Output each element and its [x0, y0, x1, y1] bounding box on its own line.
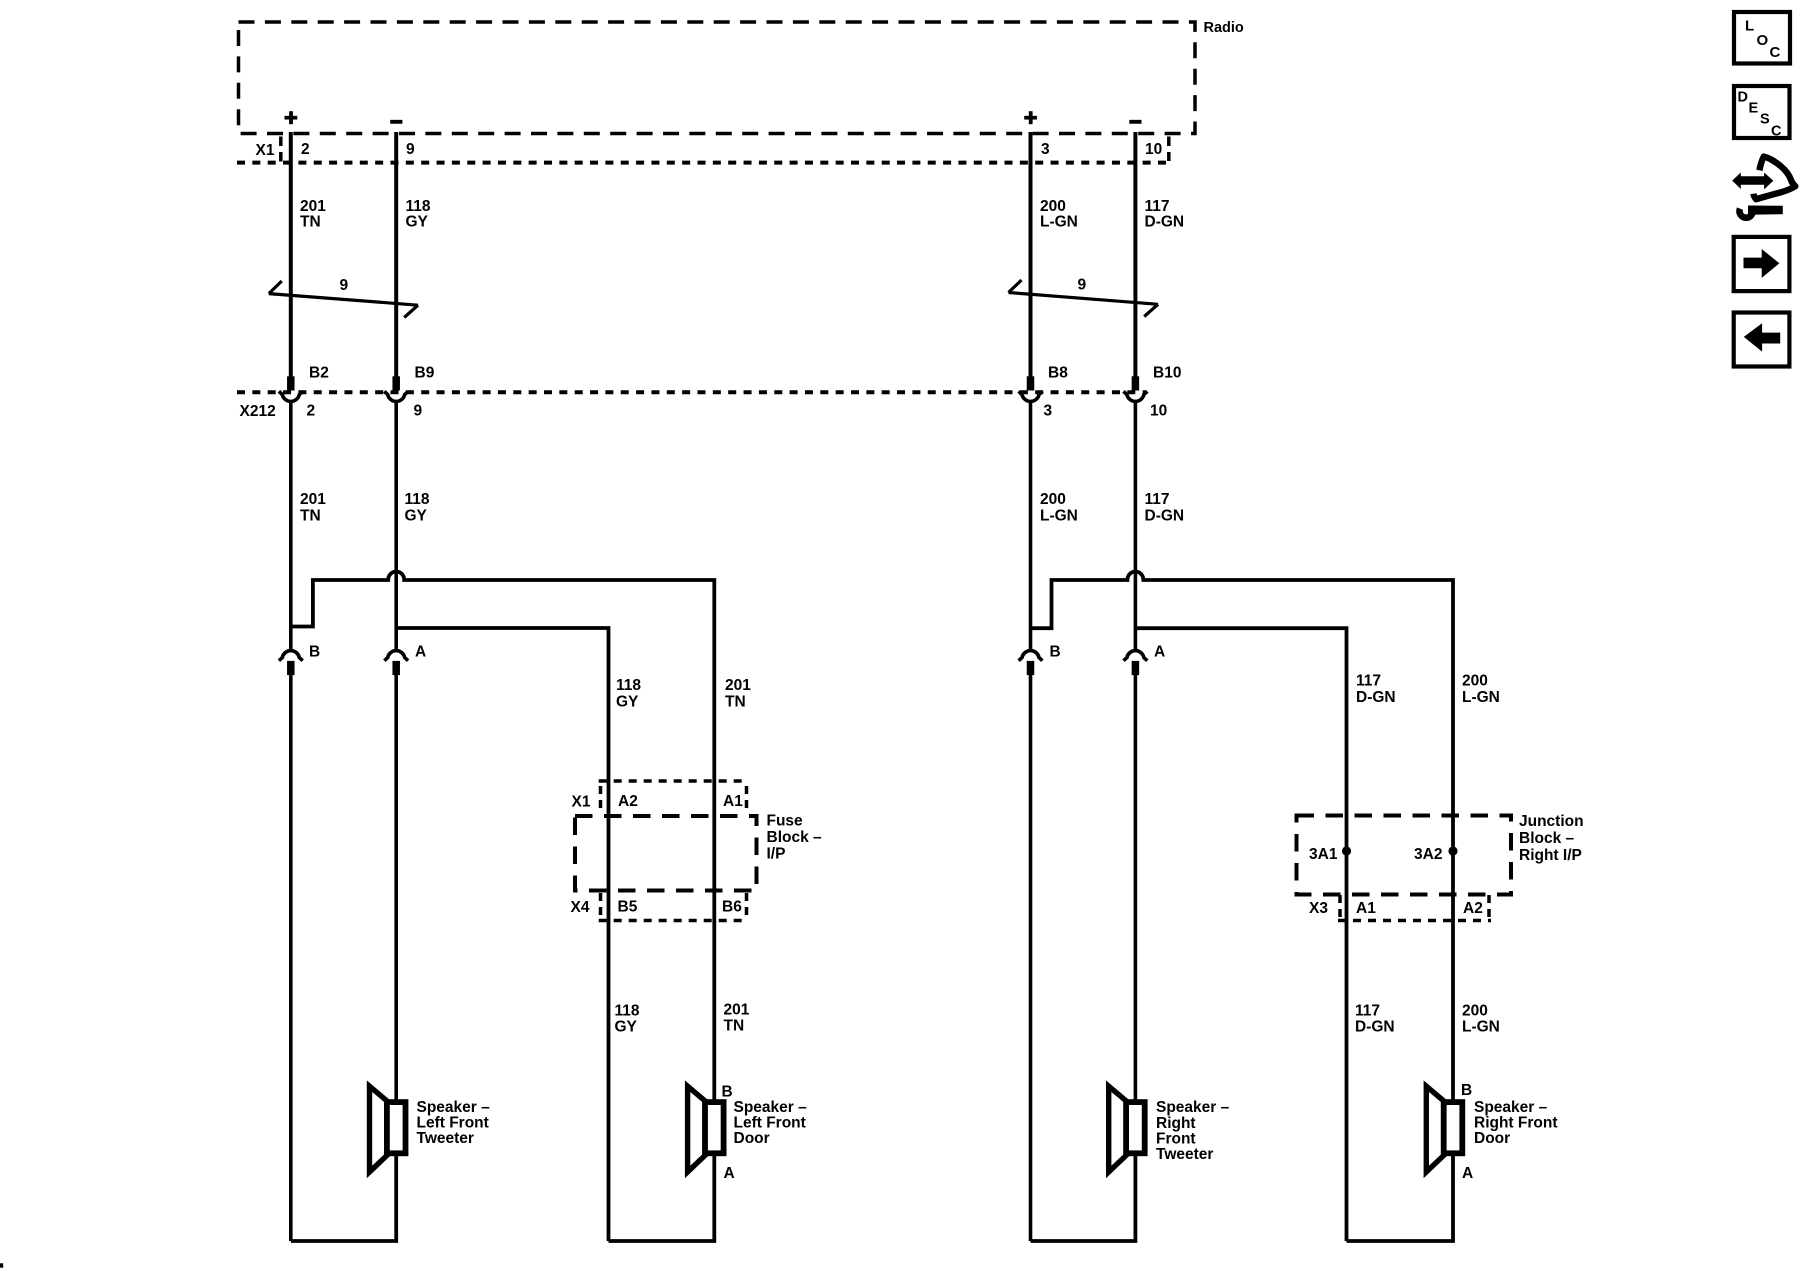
label Fuse Block - I/P — [767, 813, 823, 863]
pin A1 label (fuse block) — [723, 793, 743, 810]
scan speck bottom-left — [0, 1263, 3, 1267]
speaker - left front door — [688, 1086, 724, 1172]
svg-text:Door: Door — [1474, 1130, 1510, 1147]
sidebar tool icon wrench — [1739, 206, 1782, 218]
pin 3 label (X1) — [1041, 141, 1050, 158]
label 9 (right harness) — [1078, 277, 1087, 294]
label X1 — [256, 142, 275, 159]
svg-text:117: 117 — [1355, 1003, 1380, 1020]
pin B label (RF door speaker) — [1461, 1082, 1472, 1099]
label Speaker - Left Front Door — [734, 1099, 808, 1147]
svg-text:118: 118 — [406, 198, 431, 215]
svg-text:Left Front: Left Front — [734, 1115, 806, 1132]
svg-text:B8: B8 — [1048, 365, 1068, 382]
svg-text:10: 10 — [1145, 141, 1162, 158]
label B (left inline connector) — [309, 644, 320, 661]
pin - (radio right-front -, pin 10) — [1129, 120, 1141, 124]
radio (dashed component box) — [239, 22, 1196, 134]
inline connector B male (right) — [1027, 661, 1035, 675]
svg-text:Speaker –: Speaker – — [734, 1099, 808, 1116]
junction node 3A1 — [1342, 846, 1351, 855]
pin A2 label (fuse block) — [618, 793, 638, 810]
pin A2 label (X3) — [1463, 900, 1483, 917]
pin 2 label (X212) — [307, 403, 316, 420]
svg-text:L-GN: L-GN — [1462, 1019, 1500, 1036]
inline connector A female (left) — [384, 651, 408, 661]
svg-text:118: 118 — [616, 677, 641, 694]
svg-text:Speaker –: Speaker – — [417, 1099, 491, 1116]
wire 200 L-GN (X212 to connector B) — [1029, 403, 1033, 650]
svg-text:3A1: 3A1 — [1309, 846, 1338, 863]
sidebar tool icon curved arrow — [1753, 157, 1795, 200]
svg-text:201: 201 — [724, 1002, 750, 1019]
pin label B2 (X212) — [309, 365, 329, 382]
svg-text:B2: B2 — [309, 365, 329, 382]
svg-text:9: 9 — [1078, 277, 1087, 294]
label Junction Block - Right I/P — [1519, 813, 1584, 864]
label 200 L-GN (upper) — [1040, 198, 1078, 231]
pin 9 label (X1) — [406, 141, 415, 158]
svg-text:GY: GY — [405, 508, 428, 525]
label A (right inline connector) — [1154, 644, 1165, 661]
svg-text:Junction: Junction — [1519, 813, 1584, 830]
pin B label (LF door speaker) — [722, 1084, 733, 1101]
speaker - left front tweeter — [370, 1086, 406, 1172]
wire branch 200 L-GN to junction block (hops over 117 D-GN) — [1031, 572, 1454, 1100]
svg-text:118: 118 — [615, 1003, 640, 1020]
svg-text:9: 9 — [414, 403, 423, 420]
svg-text:A: A — [415, 644, 426, 661]
sidebar LOC letters — [1745, 18, 1781, 62]
fuse block - I/P (dashed box) — [575, 816, 757, 891]
pin 3 label (X212) — [1044, 403, 1053, 420]
svg-text:Left Front: Left Front — [417, 1115, 489, 1132]
inline connector A male (right) — [1132, 661, 1140, 675]
wire door return loop right (117 D-GN) — [1347, 1155, 1454, 1241]
svg-text:A1: A1 — [1356, 900, 1376, 917]
female terminal X212 pin2 — [279, 391, 303, 401]
svg-text:B9: B9 — [415, 365, 435, 382]
inline connector A female (right) — [1124, 651, 1148, 661]
svg-text:A: A — [1154, 644, 1165, 661]
wire 200 L-GN (connector B to tweeter loop) — [1029, 675, 1033, 1242]
svg-text:X3: X3 — [1309, 900, 1328, 917]
speaker - right front door — [1426, 1086, 1462, 1172]
label 200 L-GN (second) — [1040, 491, 1078, 525]
svg-text:A: A — [724, 1165, 735, 1182]
svg-text:Block –: Block – — [1519, 830, 1575, 847]
svg-text:TN: TN — [300, 214, 321, 231]
junction node 3A2 — [1448, 846, 1457, 855]
svg-text:10: 10 — [1150, 403, 1167, 420]
svg-text:200: 200 — [1040, 198, 1066, 215]
pin B5 label (fuse block) — [618, 899, 638, 916]
pin label B10 (X212) — [1153, 365, 1181, 382]
label Speaker - Left Front Tweeter — [417, 1099, 491, 1147]
label 118 GY (lower) — [615, 1003, 640, 1036]
svg-text:D-GN: D-GN — [1355, 1019, 1395, 1036]
svg-text:117: 117 — [1356, 673, 1381, 690]
label 3A1 — [1309, 846, 1338, 863]
svg-text:C: C — [1770, 44, 1781, 61]
wire 118 GY (connector A to LF tweeter) — [394, 675, 398, 1100]
label 118 GY (mid) — [616, 677, 641, 711]
pin 10 label (X212) — [1150, 403, 1167, 420]
svg-text:201: 201 — [300, 491, 326, 508]
label Speaker - Right Front Door — [1474, 1099, 1558, 1147]
pin A label (RF door speaker) — [1462, 1165, 1473, 1182]
svg-text:B10: B10 — [1153, 365, 1181, 382]
svg-text:L-GN: L-GN — [1462, 689, 1500, 706]
inline connector B female (right) — [1019, 651, 1043, 661]
svg-text:L-GN: L-GN — [1040, 508, 1078, 525]
label A (left inline connector) — [415, 644, 426, 661]
wire 201 TN (radio pin2 to X212) — [289, 132, 293, 377]
svg-text:117: 117 — [1145, 491, 1170, 508]
pin B6 label (fuse block) — [722, 899, 742, 916]
wire branch 118 GY to fuse block — [396, 628, 608, 1241]
svg-text:3: 3 — [1041, 141, 1050, 158]
svg-text:B: B — [309, 644, 320, 661]
pin A label (LF door speaker) — [724, 1165, 735, 1182]
label 9 (left harness) — [340, 277, 349, 294]
svg-text:Right I/P: Right I/P — [1519, 847, 1582, 864]
svg-text:TN: TN — [725, 694, 746, 711]
svg-text:D-GN: D-GN — [1356, 689, 1396, 706]
svg-text:Tweeter: Tweeter — [417, 1130, 474, 1147]
svg-text:2: 2 — [301, 141, 310, 158]
svg-text:Fuse: Fuse — [767, 813, 804, 830]
sidebar tool icon double arrow — [1733, 174, 1773, 189]
pin label B8 (X212) — [1048, 365, 1068, 382]
label 118 GY (upper) — [406, 198, 431, 231]
label 200 L-GN (lower) — [1462, 1003, 1500, 1036]
pin - (radio left-front -, pin 9) — [390, 120, 402, 124]
label Speaker - Right Front Tweeter — [1156, 1099, 1230, 1163]
label 117 D-GN (upper) — [1145, 198, 1185, 231]
svg-text:GY: GY — [616, 694, 639, 711]
junction block connector X3 dotted row — [1338, 895, 1491, 921]
svg-text:GY: GY — [615, 1019, 638, 1036]
label 201 TN (second left) — [300, 491, 326, 525]
sidebar forward arrow — [1744, 250, 1779, 277]
male terminal X212 pin3 — [1027, 376, 1035, 390]
wire 201 TN (X212 to splice/connector B) — [289, 403, 293, 650]
connector X1 left bracket tick — [279, 137, 283, 164]
inline connector A male (left) — [392, 661, 400, 675]
svg-text:A2: A2 — [1463, 900, 1483, 917]
svg-text:B5: B5 — [618, 899, 638, 916]
pin 2 label (X1) — [301, 141, 310, 158]
svg-text:Right: Right — [1156, 1115, 1196, 1132]
male terminal X212 pin9 — [392, 376, 400, 390]
svg-text:X1: X1 — [256, 142, 275, 159]
svg-text:L: L — [1745, 18, 1754, 35]
label 201 TN (mid) — [725, 677, 751, 711]
svg-text:Tweeter: Tweeter — [1156, 1146, 1213, 1163]
svg-text:A: A — [1462, 1165, 1473, 1182]
label 201 TN (lower) — [724, 1002, 750, 1035]
svg-text:B: B — [1050, 644, 1061, 661]
male terminal X212 pin2 — [287, 376, 295, 390]
wire 201 TN (connector B to tweeter loop) — [289, 675, 293, 1242]
male terminal X212 pin10 — [1132, 376, 1140, 390]
junction block - right I/P (dashed box) — [1297, 816, 1512, 895]
wire 117 D-GN (X212 to connector A) — [1134, 403, 1138, 650]
connector X1 dotted line — [237, 161, 1168, 165]
svg-text:200: 200 — [1040, 491, 1066, 508]
label 117 D-GN (mid) — [1356, 673, 1396, 707]
svg-text:X1: X1 — [572, 794, 591, 811]
female terminal X212 pin9 — [384, 391, 408, 401]
sidebar back arrow — [1745, 324, 1780, 350]
svg-text:L-GN: L-GN — [1040, 214, 1078, 231]
label X212 — [240, 403, 276, 420]
svg-text:O: O — [1757, 32, 1769, 49]
sidebar DESC box — [1734, 86, 1790, 138]
svg-text:TN: TN — [300, 508, 321, 525]
svg-text:117: 117 — [1145, 198, 1170, 215]
sidebar LOC box — [1734, 12, 1790, 64]
label 200 L-GN (mid) — [1462, 673, 1500, 707]
svg-text:A1: A1 — [723, 793, 743, 810]
svg-text:B: B — [722, 1084, 733, 1101]
wire tweeter return loop left (201 TN) — [291, 1155, 396, 1241]
svg-text:201: 201 — [725, 677, 751, 694]
pin + (radio left-front +, pin 2) — [285, 111, 298, 124]
svg-text:D-GN: D-GN — [1145, 214, 1185, 231]
label 201 TN (upper left) — [300, 198, 326, 231]
fuse block connector X4 dotted row — [599, 893, 748, 921]
svg-text:3A2: 3A2 — [1414, 846, 1442, 863]
label 117 D-GN (lower) — [1355, 1003, 1395, 1036]
wire branch 201 TN to fuse block (hops over 118 GY) — [291, 572, 715, 1100]
svg-text:Block –: Block – — [767, 829, 823, 846]
connector X1 right bracket tick — [1167, 137, 1171, 162]
wire 200 L-GN (radio pin3 to X212) — [1029, 132, 1033, 377]
pin label B9 (X212) — [415, 365, 435, 382]
svg-text:Front: Front — [1156, 1131, 1196, 1148]
sidebar forward arrow box — [1734, 237, 1790, 291]
svg-text:X4: X4 — [571, 899, 590, 916]
connector X212 dotted line — [237, 390, 1146, 394]
svg-text:A2: A2 — [618, 793, 638, 810]
svg-text:GY: GY — [406, 214, 429, 231]
sidebar back arrow box — [1734, 313, 1790, 367]
svg-text:Speaker –: Speaker – — [1474, 1099, 1548, 1116]
wire door return loop left (118 GY) — [609, 1155, 715, 1241]
svg-text:Door: Door — [734, 1130, 770, 1147]
label Radio — [1204, 20, 1244, 36]
svg-text:2: 2 — [307, 403, 316, 420]
svg-text:D: D — [1738, 90, 1748, 106]
svg-text:I/P: I/P — [767, 846, 786, 863]
svg-text:B: B — [1461, 1082, 1472, 1099]
svg-text:B6: B6 — [722, 899, 742, 916]
harness slash left (9 circuits) — [269, 281, 418, 318]
svg-text:C: C — [1771, 124, 1782, 140]
wire 118 GY (X212 to connector A) — [394, 403, 398, 650]
pin + (radio right-front +, pin 3) — [1024, 111, 1037, 124]
fuse block connector X1 dotted row — [599, 781, 748, 812]
svg-text:Radio: Radio — [1204, 20, 1244, 36]
svg-text:200: 200 — [1462, 673, 1488, 690]
female terminal X212 pin10 — [1124, 391, 1148, 401]
pin A1 label (X3) — [1356, 900, 1376, 917]
wire 117 D-GN (radio pin10 to X212) — [1133, 132, 1137, 377]
svg-text:X212: X212 — [240, 403, 276, 420]
svg-text:D-GN: D-GN — [1145, 508, 1185, 525]
svg-text:9: 9 — [340, 277, 349, 294]
label B (right inline connector) — [1050, 644, 1061, 661]
inline connector B male (left) — [287, 661, 295, 675]
svg-text:3: 3 — [1044, 403, 1053, 420]
svg-text:118: 118 — [405, 491, 430, 508]
inline connector B female (left) — [279, 651, 303, 661]
wire branch 117 D-GN to junction block — [1135, 628, 1346, 1241]
wire 117 D-GN (connector A to RF tweeter) — [1134, 675, 1138, 1100]
label 3A2 — [1414, 846, 1442, 863]
label 117 D-GN (second) — [1145, 491, 1185, 525]
pin 9 label (X212) — [414, 403, 423, 420]
female terminal X212 pin3 — [1019, 391, 1043, 401]
sidebar DESC letters — [1738, 90, 1783, 140]
svg-text:200: 200 — [1462, 1003, 1488, 1020]
svg-text:TN: TN — [724, 1018, 745, 1035]
label X1 (fuse block) — [572, 794, 591, 811]
svg-text:9: 9 — [406, 141, 415, 158]
svg-text:S: S — [1760, 112, 1770, 128]
svg-text:201: 201 — [300, 198, 326, 215]
wire tweeter return loop right (200 L-GN) — [1031, 1155, 1136, 1241]
wire 118 GY (radio pin9 to X212) — [394, 132, 398, 377]
speaker - right front tweeter — [1109, 1086, 1145, 1172]
harness slash right (9 circuits) — [1009, 280, 1159, 317]
svg-text:Speaker –: Speaker – — [1156, 1099, 1230, 1116]
svg-text:Right Front: Right Front — [1474, 1115, 1558, 1132]
svg-text:E: E — [1749, 101, 1759, 117]
label X3 — [1309, 900, 1328, 917]
pin X4 label (fuse block) — [571, 899, 590, 916]
pin 10 label (X1) — [1145, 141, 1162, 158]
label 118 GY (second) — [405, 491, 430, 525]
